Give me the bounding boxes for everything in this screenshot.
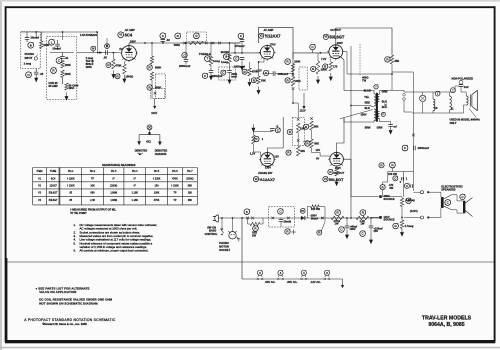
node grid junction — [241, 52, 243, 54]
svg-text:PHASE INV: PHASE INV — [258, 171, 272, 175]
plate wire to rail — [128, 43, 130, 46]
wire rail step down — [234, 43, 236, 53]
svg-text:0*: 0* — [134, 177, 136, 180]
wire — [26, 32, 28, 38]
capacitor .1 phase input — [270, 129, 275, 131]
capacitor callout motor — [278, 209, 284, 215]
wire divider mid — [401, 207, 403, 221]
wire — [50, 52, 74, 54]
capacitor callout 2200 — [202, 73, 207, 78]
plate wire to feedback — [336, 28, 392, 55]
svg-text:150V: 150V — [350, 227, 356, 231]
speaker arm diagonal — [469, 109, 476, 118]
svg-text:2W: 2W — [252, 233, 256, 237]
output choke coil — [450, 96, 452, 110]
wire jack2 feed — [404, 217, 421, 219]
svg-text:Pin 6: Pin 6 — [172, 170, 178, 173]
wire choke bottom — [433, 110, 450, 113]
wire — [62, 53, 64, 57]
speaker option jacks — [403, 94, 406, 97]
resistor 470K grid leak 12AX7 — [248, 68, 251, 76]
svg-text:100K: 100K — [86, 65, 92, 69]
wire — [297, 133, 299, 140]
screen wire output 2 — [343, 159, 351, 196]
node plate coupling — [292, 73, 294, 75]
tie x bottom — [297, 139, 300, 142]
svg-text:1meg: 1meg — [221, 60, 228, 64]
wire top link — [392, 71, 413, 73]
svg-text:"B-": "B-" — [138, 152, 144, 156]
svg-text:.05: .05 — [40, 72, 44, 76]
cathode resistor 170 — [329, 62, 332, 71]
wire divider feed — [293, 103, 298, 117]
svg-text:56K: 56K — [188, 185, 193, 188]
wire lamp bottom — [412, 102, 423, 113]
resistor 100K input — [40, 41, 43, 49]
wire — [112, 53, 114, 59]
output transformer T1 primary upper — [374, 94, 376, 106]
svg-text:5.: 5. — [74, 241, 77, 245]
svg-text:B: B — [30, 43, 32, 47]
scan edge shading — [0, 0, 2, 350]
capacitor 2000mmf grid — [234, 56, 239, 61]
wire right riser — [403, 172, 405, 197]
wire — [26, 39, 28, 42]
electrostatic speaker 2 bar — [463, 201, 465, 214]
node divider — [401, 217, 403, 219]
svg-text:20mfd: 20mfd — [284, 220, 292, 224]
treble pot callout — [194, 33, 200, 39]
node cathode — [258, 61, 260, 63]
capacitor secondary — [388, 125, 393, 127]
wire none3 — [232, 218, 234, 231]
ground 40mf — [346, 231, 348, 235]
node junction — [144, 42, 146, 44]
selenium rectifier M1 — [300, 208, 305, 213]
wire grid line — [231, 52, 261, 54]
svg-text:2200Ω: 2200Ω — [110, 185, 117, 188]
svg-text:2000mmf: 2000mmf — [418, 146, 429, 150]
svg-text:BRN: BRN — [365, 126, 371, 130]
wire 470K top — [249, 62, 251, 68]
wire secondary bottom — [379, 119, 390, 125]
resistor 500K in box — [190, 41, 204, 44]
ground divider — [401, 229, 403, 233]
capacitor motor — [279, 220, 284, 222]
node center tap — [350, 105, 352, 107]
wire M stem — [106, 38, 108, 49]
tube callout V2 — [259, 33, 264, 38]
tie x top — [297, 118, 300, 121]
svg-text:Pin 7: Pin 7 — [187, 170, 193, 173]
svg-text:A PHOTOFACT STANDARD NOTATI: A PHOTOFACT STANDARD NOTATION SCHEMATIC — [24, 318, 116, 322]
wire — [252, 144, 254, 152]
screen bypass — [343, 52, 347, 74]
svg-text:1.2V: 1.2V — [250, 151, 256, 155]
transformer callout T1 — [374, 84, 379, 89]
surge resistor bridge — [307, 207, 310, 218]
wire to 470 — [383, 182, 388, 185]
capacitor 2000mf — [402, 145, 408, 151]
svg-text:0*: 0* — [134, 185, 136, 188]
wire top input rail — [21, 31, 97, 33]
ground grid cap — [241, 63, 243, 67]
svg-text:2.36: 2.36 — [90, 199, 95, 202]
svg-text:6C4: 6C4 — [51, 177, 56, 180]
svg-text:100K: 100K — [295, 79, 301, 83]
wire divider down — [292, 90, 294, 104]
svg-text:1W: 1W — [335, 222, 339, 226]
wire — [317, 53, 319, 61]
ground bass switch arrow — [221, 233, 223, 235]
svg-text:TUBE: TUBE — [50, 170, 57, 173]
svg-text:170: 170 — [333, 65, 338, 69]
wire — [210, 43, 212, 57]
tube V4 50L6GT output 2 — [328, 151, 345, 167]
field coil — [433, 99, 435, 111]
wire spk top — [461, 92, 466, 96]
wire cathode stub — [124, 60, 126, 64]
wire volume line — [77, 52, 120, 54]
svg-text:NON-POLARIZED: NON-POLARIZED — [452, 77, 474, 81]
wire — [297, 142, 299, 147]
svg-text:RESISTANCE READINGS: RESISTANCE READINGS — [102, 163, 135, 167]
svg-text:1V: 1V — [119, 47, 122, 51]
resistor 100K loudness upper — [61, 61, 64, 69]
bass control callout — [223, 54, 229, 60]
wire grid feed — [97, 32, 99, 53]
ground below .05 cap — [35, 74, 37, 78]
node socket junction — [232, 217, 234, 219]
tube V3 50L6GT — [327, 44, 344, 60]
svg-text:GRN: GRN — [377, 126, 383, 130]
svg-text:2mf: 2mf — [464, 85, 469, 89]
svg-text:USED IN MODEL #9064A: USED IN MODEL #9064A — [450, 117, 480, 121]
wire loudness top feed — [62, 32, 64, 40]
output transformer T1 secondary lower — [378, 111, 380, 118]
resistance readings table grid — [33, 168, 198, 205]
resistor 680K lower — [150, 72, 153, 80]
ground 100mf — [370, 236, 372, 240]
resistor 50 ohm — [65, 83, 68, 90]
terminal 200V source — [379, 195, 382, 198]
switch contact — [184, 42, 187, 45]
ground phono socket bars — [237, 237, 241, 241]
svg-text:ITEM: ITEM — [37, 170, 43, 173]
wire socket feed — [232, 218, 234, 232]
svg-text:Pin 1: Pin 1 — [68, 170, 74, 173]
bass switch arm — [221, 218, 223, 228]
capacitor callout bass — [221, 70, 226, 75]
svg-text:2000mmf: 2000mmf — [179, 64, 190, 68]
ground output2 cathode — [336, 178, 338, 182]
wire filament end to B- arrow — [342, 279, 344, 285]
svg-text:1.96M: 1.96M — [110, 199, 117, 202]
capacitor 2000mmf bass — [227, 71, 232, 73]
switch in dashed box — [154, 92, 157, 95]
thermistor below rail — [317, 230, 322, 235]
heater pins V1 — [257, 270, 262, 275]
svg-text:1.18K: 1.18K — [132, 199, 139, 202]
resistor 1 meg phase grid — [252, 135, 255, 144]
svg-text:TP: TP — [91, 177, 94, 180]
ground secondary cap — [390, 127, 392, 131]
wire plate rail to tone stack — [129, 42, 241, 44]
svg-text:MOTOR: MOTOR — [219, 244, 229, 248]
phono motor dashed box — [268, 207, 294, 227]
svg-text:GRN: GRN — [382, 89, 388, 93]
svg-text:6.8meg: 6.8meg — [406, 198, 415, 202]
resistor 470 ohm — [380, 185, 385, 190]
arrow 121V — [154, 98, 156, 106]
svg-text:INPUT: INPUT — [25, 56, 33, 60]
svg-text:85 AMP: 85 AMP — [49, 84, 59, 88]
tube callout V1 — [118, 32, 124, 38]
capacitor 20mmf loudness — [55, 44, 60, 46]
svg-text:1500Ω: 1500Ω — [186, 177, 193, 180]
svg-text:-50V AC-: -50V AC- — [287, 280, 298, 284]
svg-text:180: 180 — [188, 192, 193, 195]
capacitor .01 loudness — [60, 57, 65, 59]
svg-text:6X1: 6X1 — [146, 140, 151, 144]
resistor 56K — [310, 121, 313, 130]
resistor 270 ohm filter — [331, 216, 344, 219]
choke callout — [451, 88, 456, 93]
svg-text:470mmf: 470mmf — [235, 44, 245, 48]
node volume junction — [97, 52, 99, 54]
svg-text:N: N — [92, 47, 94, 51]
tube V2b 12AX7 phase inverter — [259, 152, 276, 168]
switch contact — [205, 42, 208, 45]
wire lamp top — [412, 92, 423, 95]
wire 65K down — [311, 148, 313, 153]
wire fuse out — [260, 218, 263, 224]
tube V2a 12AX7 — [259, 45, 276, 61]
AC interlock plug — [215, 215, 219, 222]
wire cap to grid line — [241, 41, 243, 53]
svg-text:150 2W: 150 2W — [388, 172, 397, 176]
divider dashed box — [292, 117, 304, 145]
wire — [35, 69, 37, 73]
wire V4 plate to primary bottom — [344, 118, 374, 122]
capacitor 470mmf input — [238, 33, 244, 39]
speaker coil — [466, 96, 468, 105]
capacitor 2000mmf treble — [184, 60, 189, 62]
svg-text:11V: 11V — [274, 155, 279, 159]
resistor 1 meg treble — [209, 57, 212, 66]
svg-text:1.18K: 1.18K — [132, 192, 139, 195]
label 121V arrow legend area — [150, 89, 165, 99]
svg-text:6.: 6. — [74, 249, 77, 253]
fuse resistor 33 ohm — [250, 222, 260, 225]
wire 200V source — [351, 197, 379, 218]
svg-text:121V: 121V — [300, 109, 306, 113]
svg-text:12V: 12V — [316, 148, 321, 152]
varistor — [285, 229, 290, 234]
svg-text:100K: 100K — [294, 60, 300, 64]
speaker callout 2 — [460, 194, 465, 199]
ground bass — [229, 76, 231, 80]
resistor 220K output grid — [316, 61, 319, 74]
svg-text:† MEASURED FROM OUTPUT OF M1: † MEASURED FROM OUTPUT OF M1. — [70, 208, 116, 212]
svg-text:NOT SHOWN ON SCHEMATIC DIA: NOT SHOWN ON SCHEMATIC DIAGRAM — [39, 302, 98, 306]
svg-text:TW: TW — [362, 78, 367, 82]
svg-text:† 220K: † 220K — [67, 177, 75, 180]
svg-text:4W: 4W — [389, 186, 393, 190]
ground loudness — [66, 93, 68, 97]
speaker connection wires — [429, 192, 441, 197]
wire — [35, 32, 37, 37]
svg-text:100K: 100K — [65, 63, 71, 67]
plate wire output 2 — [337, 118, 344, 152]
wire none spk — [444, 201, 463, 203]
svg-text:.05: .05 — [103, 56, 107, 60]
wire fuse in — [248, 218, 250, 224]
legend T bar — [139, 135, 160, 142]
svg-text:121V: 121V — [151, 111, 157, 115]
wire field top — [423, 92, 433, 99]
svg-text:220 3W: 220 3W — [311, 207, 320, 211]
svg-text:TREBLE: TREBLE — [199, 52, 211, 56]
svg-text:.02: .02 — [166, 38, 170, 42]
speaker callout 1 — [445, 200, 451, 206]
capacitor 20mmf phono — [25, 38, 30, 40]
left frame lower thickening — [5, 258, 7, 342]
svg-text:35K: 35K — [395, 59, 400, 63]
heater pins V4 — [324, 270, 329, 275]
wire jacks feed — [413, 191, 420, 193]
svg-text:33K: 33K — [261, 79, 266, 83]
wire none — [383, 216, 403, 218]
cathode stub — [259, 58, 265, 76]
svg-text:170V: 170V — [270, 43, 276, 47]
ground cathode — [123, 75, 125, 79]
svg-text:680K: 680K — [155, 85, 161, 89]
svg-text:T: T — [206, 57, 208, 61]
switch contact — [212, 42, 215, 45]
resistor callout 1500 — [115, 74, 120, 79]
svg-text:4.7meg: 4.7meg — [405, 224, 414, 228]
loudness network dashed box — [47, 37, 77, 100]
tie x 56K — [310, 117, 313, 120]
wire secondary top to speaker — [379, 90, 404, 94]
wire filament bus — [242, 278, 343, 280]
svg-text:AF AMP: AF AMP — [263, 28, 274, 32]
speaker 1 arms — [444, 195, 452, 210]
wire — [57, 46, 59, 50]
svg-text:B: B — [225, 55, 227, 59]
wire spk2 low — [452, 210, 464, 213]
tube callout phase inv — [253, 176, 258, 181]
resistor 680K left — [150, 56, 153, 64]
svg-text:CHASSIS: CHASSIS — [155, 152, 167, 156]
resistor 10K upper — [297, 123, 300, 133]
svg-text:1.96M: 1.96M — [110, 192, 117, 195]
svg-text:1.: 1. — [74, 223, 77, 227]
wire spk1 low — [429, 208, 441, 218]
wire 121V to terminal — [371, 216, 379, 218]
wire bridge right — [319, 207, 325, 218]
svg-text:TP: TP — [173, 192, 176, 195]
output transformer T1 primary lower — [374, 109, 376, 121]
svg-text:7.2V: 7.2V — [321, 57, 327, 61]
svg-text:20mmf: 20mmf — [31, 36, 39, 40]
wire 470 down — [382, 190, 384, 197]
capacitor 2200mmf — [209, 71, 214, 73]
resistor callout heater 2 — [390, 162, 396, 168]
capacitor .05 — [34, 72, 39, 74]
svg-text:880: 880 — [91, 192, 96, 195]
resistor 470K grid leak — [112, 59, 115, 69]
resistor 4.7 meg — [400, 220, 403, 229]
capacitor callout B — [28, 42, 34, 48]
svg-text:YEL: YEL — [364, 95, 369, 99]
svg-text:½12AX7: ½12AX7 — [265, 33, 282, 38]
resistor 100K plate load — [285, 59, 291, 65]
cathode resistor output 2 — [335, 169, 338, 177]
node feedback junction — [391, 73, 393, 75]
field coil callout — [435, 91, 440, 96]
svg-text:9064A, B, 9085: 9064A, B, 9085 — [428, 322, 464, 328]
svg-text:-50V AC-: -50V AC- — [265, 280, 276, 284]
svg-text:©Howard W. Sams & Co., Inc. 1: ©Howard W. Sams & Co., Inc. 1959 — [43, 322, 88, 326]
svg-text:Pin 2: Pin 2 — [90, 170, 96, 173]
ground treble — [210, 72, 212, 76]
capacitor callout 100mf — [360, 231, 366, 237]
node switch junction — [221, 217, 223, 219]
jack terminal 200V — [421, 191, 424, 194]
wire — [185, 61, 187, 64]
wire right vertical drop — [412, 72, 414, 191]
wire — [181, 42, 241, 44]
heater pins V3 — [301, 270, 306, 275]
tie x rail — [321, 217, 324, 220]
capacitor 2000mmf body — [413, 146, 415, 151]
resistor 1.2K filter — [356, 216, 369, 219]
wire stem — [391, 168, 393, 172]
wires heater network — [387, 172, 389, 183]
capacitor callout O — [26, 72, 32, 78]
svg-text:† 220K: † 220K — [67, 185, 75, 188]
svg-text:PHONO: PHONO — [25, 52, 35, 56]
switch contact on rail — [246, 217, 249, 220]
svg-text:90mA: 90mA — [311, 217, 318, 221]
switch contact motor 1 — [272, 217, 275, 220]
wire plate phase up — [267, 117, 283, 153]
legend symbol circle — [147, 125, 152, 130]
svg-text:1W: 1W — [361, 222, 365, 226]
svg-text:CONTROL: CONTROL — [205, 232, 218, 236]
resistor 1 meg bass — [228, 55, 231, 64]
wire plate loop rectangle — [259, 27, 294, 58]
legend B- arrow — [137, 141, 141, 145]
resistor callout — [51, 68, 57, 74]
svg-text:† 220K: † 220K — [153, 177, 161, 180]
svg-text:TP: TP — [173, 199, 176, 202]
svg-text:470K: 470K — [154, 199, 160, 202]
svg-text:100K: 100K — [65, 72, 71, 76]
capacitor callout L — [49, 39, 55, 45]
resistor 33K cathode bias — [257, 76, 260, 84]
svg-text:Pin 4: Pin 4 — [132, 170, 138, 173]
pilot lamp — [420, 95, 426, 101]
volume pot stem — [92, 51, 94, 53]
wire — [346, 218, 348, 226]
speaker option box wires — [404, 100, 412, 112]
ground output grid — [317, 76, 319, 80]
node rail junction — [234, 52, 236, 54]
wire screen riser x351 — [350, 46, 352, 197]
